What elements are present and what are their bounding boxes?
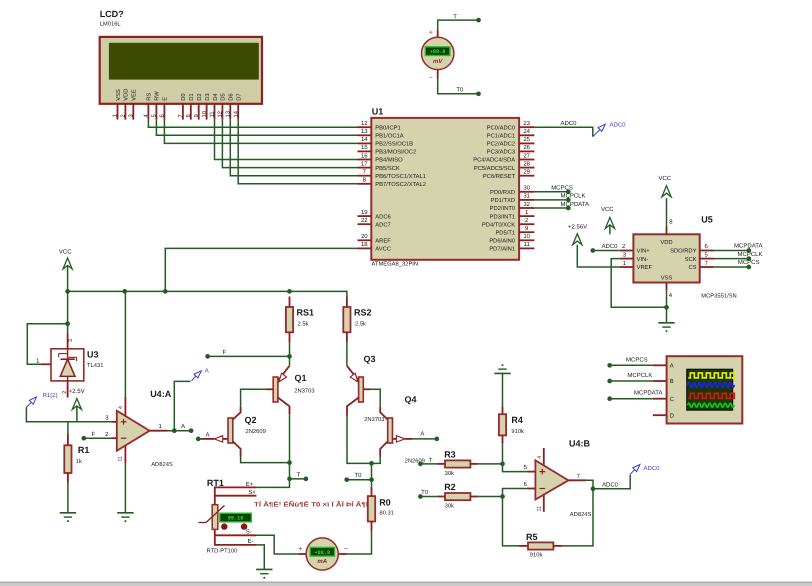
svg-text:D0: D0 (180, 93, 187, 100)
svg-text:PB2/SS/OC1B: PB2/SS/OC1B (375, 141, 413, 148)
svg-text:17: 17 (361, 160, 368, 167)
svg-text:+: + (429, 29, 433, 36)
svg-text:VDD: VDD (124, 89, 130, 101)
svg-text:U3: U3 (87, 350, 99, 360)
svg-text:PC1/ADC1: PC1/ADC1 (487, 133, 515, 140)
svg-text:A: A (670, 363, 674, 370)
svg-text:CS: CS (688, 264, 696, 271)
svg-text:mV: mV (433, 58, 443, 65)
svg-text:3: 3 (68, 339, 74, 342)
svg-text:R2: R2 (444, 482, 456, 492)
svg-text:AVCC: AVCC (375, 246, 391, 253)
svg-text:E+: E+ (246, 481, 254, 488)
svg-text:PB4/MISO: PB4/MISO (375, 157, 403, 164)
svg-text:RS1: RS1 (297, 307, 315, 317)
svg-text:29: 29 (523, 169, 530, 176)
svg-text:PC3/ADC3: PC3/ADC3 (487, 149, 515, 156)
svg-text:SCK: SCK (685, 256, 697, 263)
svg-text:13: 13 (225, 111, 232, 117)
svg-text:7: 7 (178, 114, 184, 117)
svg-text:27: 27 (523, 152, 530, 159)
svg-text:U4:A: U4:A (150, 389, 172, 399)
svg-text:ADC6: ADC6 (375, 213, 390, 220)
svg-text:5: 5 (152, 114, 158, 117)
svg-text:VSS: VSS (115, 89, 122, 101)
svg-text:D: D (670, 412, 675, 419)
svg-text:8: 8 (185, 114, 192, 117)
svg-text:31: 31 (523, 193, 530, 200)
svg-text:MCPCLK: MCPCLK (627, 372, 652, 379)
svg-text:VDD: VDD (660, 240, 672, 246)
svg-text:4: 4 (118, 406, 124, 409)
svg-text:24: 24 (523, 128, 530, 135)
svg-text:TÍ Â¶È² ÉÑù¶Ê T0 ×ì Ï ÃÏ ÞÍ Â¶: TÍ Â¶È² ÉÑù¶Ê T0 ×ì Ï ÃÏ ÞÍ Â¶Ê (254, 500, 371, 508)
svg-text:U5: U5 (701, 215, 713, 225)
svg-text:18: 18 (361, 241, 368, 248)
svg-text:VEE: VEE (132, 89, 138, 101)
svg-text:F: F (223, 349, 227, 356)
svg-text:T0: T0 (421, 489, 429, 496)
svg-text:MCPCLK: MCPCLK (561, 193, 586, 200)
svg-text:PD3/INT1: PD3/INT1 (490, 213, 515, 220)
svg-text:ADC0: ADC0 (602, 481, 619, 488)
svg-text:PB5/SCK: PB5/SCK (375, 165, 400, 172)
svg-text:PC4/ADC4/SDA: PC4/ADC4/SDA (473, 157, 515, 164)
svg-text:R0: R0 (379, 497, 391, 507)
svg-text:VIN-: VIN- (637, 257, 649, 263)
svg-text:LM016L: LM016L (100, 21, 122, 28)
svg-text:30: 30 (523, 185, 530, 192)
svg-text:+88.8: +88.8 (430, 49, 446, 55)
svg-text:2.5k: 2.5k (298, 321, 309, 328)
svg-text:23: 23 (523, 120, 530, 127)
svg-text:Q2: Q2 (245, 415, 257, 425)
svg-text:LCD?: LCD? (100, 9, 124, 19)
svg-text:T: T (297, 472, 301, 479)
svg-text:A: A (206, 431, 210, 438)
svg-text:T0: T0 (456, 87, 464, 94)
svg-text:S-: S- (246, 529, 252, 536)
svg-text:MCPDATA: MCPDATA (734, 243, 762, 250)
svg-text:RS: RS (146, 93, 153, 101)
svg-text:F: F (92, 431, 96, 438)
svg-text:99.10: 99.10 (228, 516, 244, 522)
svg-text:RT1: RT1 (207, 478, 224, 488)
svg-text:AD824S: AD824S (570, 511, 592, 518)
svg-text:PD0/RXD: PD0/RXD (490, 189, 515, 196)
svg-text:+88.8: +88.8 (315, 550, 331, 556)
svg-text:26: 26 (523, 144, 530, 151)
svg-text:D7: D7 (237, 93, 243, 100)
svg-text:+2.56V: +2.56V (568, 223, 587, 230)
svg-text:30k: 30k (445, 470, 454, 477)
svg-text:A: A (205, 367, 209, 374)
svg-text:3: 3 (128, 114, 135, 117)
svg-text:MCPCLK: MCPCLK (737, 251, 762, 258)
svg-text:C: C (670, 396, 675, 403)
svg-text:PD2/INT0: PD2/INT0 (490, 205, 515, 212)
svg-text:MCPDATA: MCPDATA (634, 389, 662, 396)
svg-text:12: 12 (217, 111, 224, 117)
svg-text:9: 9 (193, 114, 200, 117)
svg-text:ADC7: ADC7 (375, 221, 390, 228)
svg-text:25: 25 (523, 136, 530, 143)
svg-text:22: 22 (361, 217, 368, 224)
svg-text:−: − (429, 74, 433, 81)
svg-text:RW: RW (155, 91, 161, 101)
svg-text:2.5k: 2.5k (355, 321, 366, 328)
svg-text:PB1/OC1A: PB1/OC1A (375, 133, 403, 140)
svg-text:ADC0: ADC0 (561, 120, 578, 127)
svg-text:6: 6 (159, 114, 166, 117)
svg-text:PB3/MOSI/OC2: PB3/MOSI/OC2 (375, 149, 416, 156)
svg-text:32: 32 (523, 201, 530, 208)
svg-text:B: B (670, 378, 674, 385)
svg-text:D6: D6 (228, 93, 235, 100)
svg-text:MCP3551/SN: MCP3551/SN (701, 293, 736, 300)
svg-text:1: 1 (113, 114, 119, 117)
svg-text:ADC0: ADC0 (602, 243, 619, 250)
svg-text:A: A (420, 430, 424, 437)
svg-text:RS2: RS2 (354, 307, 372, 317)
svg-text:30k: 30k (445, 502, 454, 509)
svg-text:R1: R1 (78, 445, 90, 455)
svg-text:AD824S: AD824S (151, 461, 173, 468)
svg-text:15: 15 (361, 144, 368, 151)
svg-text:ADC0: ADC0 (610, 122, 627, 129)
svg-text:PB0/ICP1: PB0/ICP1 (375, 124, 400, 131)
svg-text:S+: S+ (248, 489, 256, 496)
svg-text:ADC0: ADC0 (644, 465, 661, 472)
svg-text:16: 16 (361, 152, 368, 159)
svg-text:VCC: VCC (658, 175, 671, 182)
svg-text:+2.5V: +2.5V (69, 388, 85, 395)
svg-text:910k: 910k (530, 552, 543, 559)
svg-text:U4:B: U4:B (569, 439, 591, 449)
svg-text:14: 14 (233, 110, 239, 117)
svg-text:VSS: VSS (661, 275, 673, 282)
svg-text:D1: D1 (189, 93, 195, 100)
svg-text:Q1: Q1 (295, 373, 307, 383)
svg-text:80.31: 80.31 (380, 510, 395, 517)
svg-text:13: 13 (361, 128, 368, 135)
svg-text:10: 10 (523, 233, 530, 240)
svg-text:R3: R3 (444, 450, 456, 460)
svg-text:PC2/ADC2: PC2/ADC2 (487, 141, 515, 148)
svg-text:mA: mA (317, 558, 327, 565)
svg-text:PD5/T1: PD5/T1 (495, 229, 515, 236)
svg-text:VCC: VCC (59, 249, 72, 256)
svg-text:PD7/AIN1: PD7/AIN1 (489, 246, 515, 253)
svg-text:11: 11 (537, 506, 543, 512)
svg-text:MCPCS: MCPCS (626, 356, 648, 363)
svg-text:Q3: Q3 (364, 354, 376, 364)
svg-text:E: E (163, 97, 169, 101)
svg-text:14: 14 (361, 136, 368, 143)
svg-text:R1(2): R1(2) (43, 392, 58, 399)
svg-text:T0: T0 (354, 472, 362, 479)
svg-text:MCPCS: MCPCS (738, 259, 760, 266)
svg-text:11: 11 (210, 111, 216, 117)
svg-text:PD6/AIN0: PD6/AIN0 (489, 238, 515, 245)
svg-text:−: − (344, 546, 348, 553)
svg-text:20: 20 (361, 233, 368, 240)
svg-text:12: 12 (361, 120, 368, 127)
svg-text:28: 28 (523, 160, 530, 167)
svg-text:VREF: VREF (637, 265, 653, 271)
svg-text:T: T (429, 457, 433, 464)
svg-text:1k: 1k (76, 458, 82, 465)
svg-text:ATMEGA8_32PIN: ATMEGA8_32PIN (372, 261, 419, 268)
svg-text:PC0/ADC0: PC0/ADC0 (487, 124, 515, 131)
svg-text:Q4: Q4 (405, 395, 417, 405)
svg-text:2: 2 (120, 114, 127, 117)
svg-text:D5: D5 (221, 93, 227, 100)
svg-text:2N2609: 2N2609 (246, 428, 266, 435)
svg-text:TL431: TL431 (87, 362, 103, 369)
svg-text:+: + (298, 546, 302, 553)
svg-text:VCC: VCC (601, 206, 614, 213)
svg-text:PD1/TXD: PD1/TXD (491, 197, 515, 204)
svg-text:11: 11 (117, 456, 123, 462)
svg-text:U1: U1 (372, 107, 384, 117)
svg-text:10: 10 (201, 111, 208, 117)
svg-text:MCPCS: MCPCS (551, 185, 573, 192)
svg-text:R5: R5 (526, 532, 538, 542)
svg-text:AREF: AREF (375, 239, 391, 245)
svg-text:T: T (453, 13, 457, 20)
svg-text:PD4/T0/XCK: PD4/T0/XCK (482, 221, 515, 228)
svg-text:2: 2 (62, 391, 68, 394)
svg-text:PC6/RESET: PC6/RESET (483, 173, 516, 180)
svg-text:PC5/ADC5/SCL: PC5/ADC5/SCL (474, 165, 516, 172)
svg-text:D3: D3 (204, 93, 211, 100)
svg-text:2N3703: 2N3703 (364, 416, 384, 423)
svg-text:4: 4 (537, 456, 543, 459)
svg-text:11: 11 (524, 241, 531, 248)
svg-text:19: 19 (361, 209, 368, 216)
svg-text:910k: 910k (511, 428, 524, 435)
svg-text:RTD-PT100: RTD-PT100 (207, 548, 238, 555)
svg-text:MCPDATA: MCPDATA (561, 201, 589, 208)
svg-text:E-: E- (248, 538, 254, 545)
svg-text:PB7/TOSC2/XTAL2: PB7/TOSC2/XTAL2 (375, 181, 426, 188)
svg-text:A: A (181, 423, 185, 430)
svg-text:D4: D4 (213, 93, 219, 101)
svg-text:PB6/TOSC1/XTAL1: PB6/TOSC1/XTAL1 (375, 173, 426, 180)
svg-text:R4: R4 (511, 415, 523, 425)
svg-text:2N3703: 2N3703 (294, 388, 314, 395)
svg-text:D2: D2 (196, 93, 203, 100)
svg-text:VIN+: VIN+ (637, 249, 651, 255)
svg-text:SDO/RDY: SDO/RDY (670, 248, 697, 255)
